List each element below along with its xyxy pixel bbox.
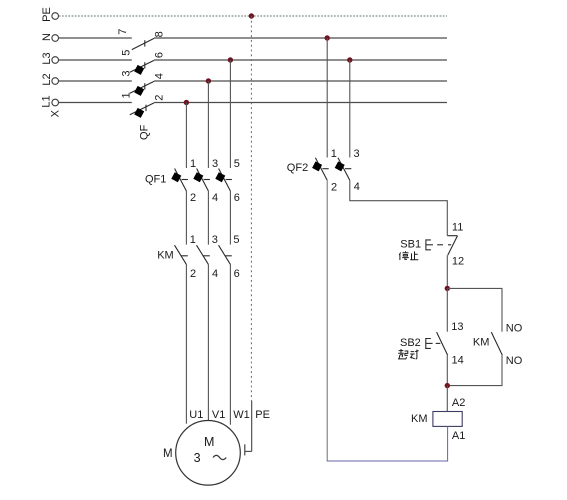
svg-text:6: 6 (153, 52, 165, 58)
svg-text:QF2: QF2 (287, 162, 308, 174)
svg-text:NO: NO (506, 355, 523, 367)
svg-text:SB1: SB1 (400, 239, 421, 251)
svg-text:2: 2 (153, 95, 165, 101)
ground frame tick (244, 444, 246, 455)
wire QF1 to KM pole5 (229, 191, 231, 245)
svg-text:NO: NO (506, 322, 523, 334)
svg-text:5: 5 (120, 50, 132, 56)
motor M circle (176, 421, 241, 486)
breaker QF pole N (7/8) (132, 38, 154, 49)
svg-text:2: 2 (331, 181, 337, 193)
svg-text:V1: V1 (212, 409, 225, 421)
wire L2 bus right (154, 80, 447, 82)
svg-text:11: 11 (452, 222, 463, 234)
wire L1 to QF1 pole1 (185, 103, 187, 169)
svg-text:12: 12 (452, 256, 464, 268)
terminal PE (52, 13, 59, 20)
svg-text:N: N (41, 33, 53, 41)
node L3 junction QF2 (347, 57, 352, 62)
svg-text:U1: U1 (189, 409, 203, 421)
wire KM to motor U1 (185, 264, 187, 423)
wire L3 to QF2 pole3 (349, 60, 351, 158)
node L3 junction QF1 (228, 57, 233, 62)
wire L1 bus left (59, 102, 132, 104)
contact KM NO aux (491, 332, 502, 355)
wire L3 to QF1 pole5 (229, 60, 231, 168)
terminal N (52, 35, 59, 42)
svg-text:4: 4 (354, 181, 360, 193)
svg-text:A2: A2 (452, 397, 465, 409)
terminal L2 (52, 78, 59, 85)
breaker QF pole L3 (5/6) (130, 60, 154, 72)
svg-text:M: M (163, 448, 173, 460)
svg-text:4: 4 (153, 73, 165, 79)
svg-text:6: 6 (234, 268, 240, 280)
svg-text:8: 8 (153, 31, 165, 37)
wire SB1 to node (446, 255, 448, 288)
wire N bus right (154, 37, 447, 39)
wire QF1 to KM pole3 (207, 191, 209, 245)
wire KM to motor V1 (207, 264, 209, 420)
svg-text:PE: PE (255, 409, 270, 421)
breaker QF2 pole 3 (338, 158, 351, 181)
svg-text:W1: W1 (233, 409, 250, 421)
node L1 junction (184, 100, 189, 105)
svg-text:2: 2 (190, 192, 196, 204)
svg-text:KM: KM (473, 337, 490, 349)
svg-text:3: 3 (194, 451, 201, 465)
svg-text:KM: KM (157, 249, 174, 261)
svg-text:X: X (49, 109, 61, 117)
SB1 actuator (426, 240, 451, 250)
contactor KM pole 3 (197, 245, 210, 264)
svg-text:A1: A1 (452, 430, 465, 442)
wire coil to bottom (blue) (447, 426, 449, 461)
wire branch top (447, 288, 502, 331)
svg-text:7: 7 (117, 29, 129, 35)
wire bottom return (blue) (327, 460, 448, 462)
node SB1-SB2 junction (445, 286, 450, 291)
breaker QF1 pole 3 (197, 169, 210, 192)
svg-text:PE: PE (41, 7, 53, 22)
wire PE bus (dashed) (59, 15, 447, 17)
svg-text:6: 6 (234, 192, 240, 204)
svg-text:2: 2 (190, 268, 196, 280)
terminal L3 (52, 57, 59, 64)
svg-text:L2: L2 (41, 73, 53, 85)
wire PE drop (dashed) (250, 16, 252, 401)
svg-text:5: 5 (234, 158, 240, 170)
motor tilde (213, 455, 226, 459)
label stop (ting zhi) (399, 251, 418, 260)
svg-text:1: 1 (120, 92, 132, 98)
coil KM (433, 412, 462, 427)
contactor KM pole 1 (175, 245, 188, 264)
wire branch bottom (447, 355, 502, 386)
breaker QF2 pole 1 (315, 158, 328, 181)
svg-text:3: 3 (120, 71, 132, 77)
svg-text:14: 14 (452, 354, 464, 366)
wire L2 bus left (59, 80, 132, 82)
wire QF2 pole2 down (neutral) (326, 180, 328, 461)
wire L1 bus right (154, 102, 447, 104)
terminal L1 (52, 99, 59, 106)
svg-text:QF1: QF1 (145, 173, 166, 185)
wire L3 bus right (154, 59, 447, 61)
wire node to coil (446, 386, 448, 412)
svg-text:3: 3 (212, 158, 218, 170)
SB2 actuator (426, 339, 441, 349)
svg-text:13: 13 (451, 321, 463, 333)
label start (qi dong) (398, 349, 419, 359)
svg-text:3: 3 (354, 148, 360, 160)
node coil junction (445, 383, 450, 388)
svg-text:L1: L1 (41, 95, 53, 107)
wire node to SB2 (446, 288, 448, 331)
svg-text:4: 4 (212, 268, 218, 280)
breaker QF1 pole 1 (175, 169, 188, 192)
wire PE to motor frame (245, 450, 252, 452)
node PE junction (249, 13, 254, 18)
node N junction (325, 35, 330, 40)
wire L2 to QF1 pole3 (207, 81, 209, 168)
svg-text:QF: QF (138, 124, 150, 140)
breaker QF pole L2 (3/4) (130, 81, 154, 93)
contactor KM pole 5 (219, 245, 232, 264)
svg-text:M: M (204, 435, 214, 449)
wire QF2 pole4 to SB1 (350, 180, 448, 235)
pushbutton SB2 (NO) contact (437, 332, 448, 355)
svg-text:1: 1 (190, 158, 196, 170)
breaker QF1 pole 5 (219, 169, 232, 192)
svg-text:1: 1 (190, 234, 196, 246)
wire N to QF2 pole1 (326, 38, 328, 158)
svg-text:L3: L3 (41, 52, 53, 64)
wire KM to motor W1 (229, 264, 231, 424)
svg-text:5: 5 (233, 234, 239, 246)
svg-text:4: 4 (212, 192, 218, 204)
breaker QF pole L1 (1/2) (130, 103, 154, 115)
svg-text:3: 3 (212, 234, 218, 246)
wire N bus left (59, 37, 132, 39)
node L2 junction (206, 78, 211, 83)
svg-text:KM: KM (411, 413, 428, 425)
pushbutton SB1 (NC) contact (447, 236, 457, 256)
svg-text:1: 1 (331, 148, 337, 160)
svg-text:SB2: SB2 (400, 337, 421, 349)
wire SB2 to node (446, 355, 448, 386)
wire PE drop solid (251, 401, 253, 451)
wire QF1 to KM pole1 (185, 191, 187, 245)
wire L3 bus left (59, 59, 132, 61)
